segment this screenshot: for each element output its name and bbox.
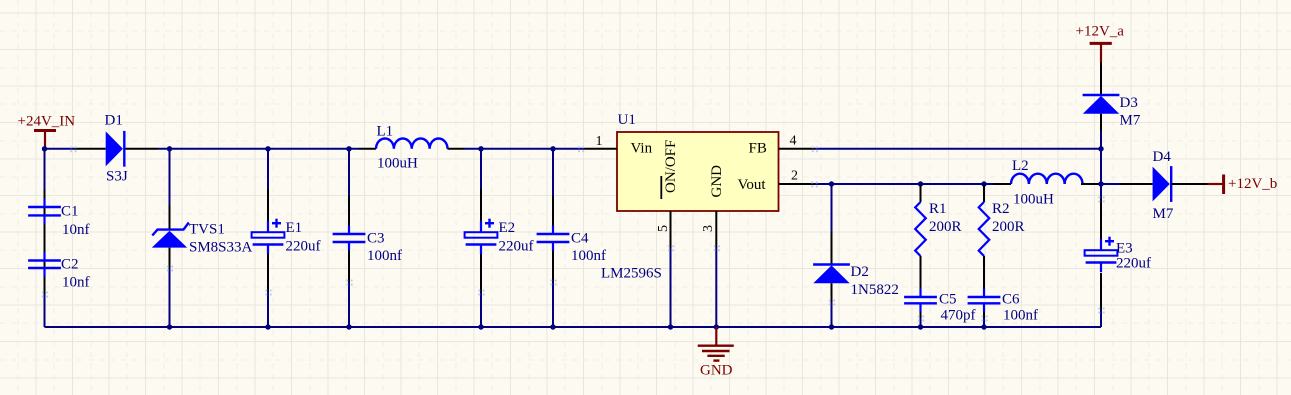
junction: [714, 324, 719, 329]
pin 2 Vout: [738, 169, 815, 193]
capacitor E1: [252, 219, 321, 255]
diode D2: [813, 264, 899, 298]
wire: [169, 149, 171, 327]
capacitor C1: [28, 199, 89, 239]
svg-text:D4: D4: [1153, 149, 1172, 165]
wire: [158, 148, 359, 150]
junction: [1098, 146, 1103, 151]
junction: [265, 324, 270, 329]
svg-text:LM2596S: LM2596S: [601, 266, 662, 282]
power port +24V_IN: [18, 114, 76, 149]
wire end marker: [981, 316, 987, 322]
svg-text:+24V_IN: +24V_IN: [18, 114, 76, 130]
ground: [698, 327, 734, 379]
svg-text:10nf: 10nf: [62, 222, 90, 238]
wire: [715, 248, 717, 327]
svg-text:200R: 200R: [929, 219, 962, 235]
inductor L1: [359, 124, 465, 172]
junction: [1098, 181, 1103, 186]
wire: [815, 183, 994, 185]
resistor R2: [979, 184, 1025, 294]
svg-text:TVS1: TVS1: [189, 221, 225, 237]
wire: [348, 149, 350, 327]
svg-text:+12V_b: +12V_b: [1228, 176, 1277, 192]
svg-text:E3: E3: [1116, 240, 1133, 256]
wire: [1100, 62, 1102, 95]
wire: [1100, 149, 1102, 184]
svg-text:D1: D1: [105, 113, 123, 129]
power port +12V_a: [1076, 23, 1125, 62]
svg-text:220uf: 220uf: [499, 239, 534, 255]
wire end marker: [70, 146, 76, 152]
svg-text:3: 3: [701, 225, 716, 232]
diode D4: [1101, 149, 1208, 222]
svg-text:Vout: Vout: [738, 177, 767, 193]
inductor L2: [993, 158, 1101, 208]
wire end marker: [1098, 308, 1104, 314]
wire: [480, 149, 482, 327]
svg-text:C1: C1: [61, 204, 79, 220]
svg-text:220uf: 220uf: [286, 239, 321, 255]
diode D1: [74, 113, 158, 185]
wire end marker: [1098, 197, 1104, 203]
resistor R1: [915, 184, 961, 294]
junction: [346, 324, 351, 329]
capacitor E3: [1085, 237, 1151, 273]
IC U1 LM2596S: [601, 112, 779, 282]
svg-text:FB: FB: [749, 141, 767, 157]
svg-text:100nf: 100nf: [367, 248, 402, 264]
wire end marker: [346, 280, 352, 286]
junction: [829, 181, 834, 186]
capacitor C5: [904, 289, 975, 328]
capacitor C3: [333, 226, 402, 265]
junction: [550, 146, 555, 151]
svg-text:C5: C5: [939, 292, 957, 308]
svg-text:GND: GND: [700, 363, 733, 379]
power port +12V_b: [1208, 175, 1278, 195]
wire: [670, 248, 672, 327]
TVS diode TVS1: [152, 221, 253, 255]
wire end marker: [812, 146, 818, 152]
pin 5 ON/OFF: [656, 140, 679, 248]
svg-text:2: 2: [791, 169, 798, 184]
wire end marker: [265, 290, 271, 296]
wire end marker: [167, 266, 173, 272]
junction: [346, 146, 351, 151]
diode D3: [1083, 95, 1141, 129]
svg-text:C6: C6: [1002, 292, 1020, 308]
svg-text:R2: R2: [992, 201, 1010, 217]
wire: [1100, 114, 1102, 149]
svg-text:L1: L1: [377, 124, 394, 140]
junction: [478, 146, 483, 151]
svg-text:S3J: S3J: [106, 169, 128, 185]
wire: [45, 148, 75, 150]
svg-text:1: 1: [596, 134, 603, 149]
svg-text:200R: 200R: [992, 219, 1025, 235]
wire: [831, 184, 833, 327]
junction: [265, 146, 270, 151]
svg-text:U1: U1: [618, 112, 636, 128]
wire end marker: [478, 290, 484, 296]
svg-text:D3: D3: [1120, 95, 1138, 111]
svg-text:100nf: 100nf: [1003, 308, 1038, 324]
capacitor C6: [968, 289, 1038, 328]
junction: [918, 324, 923, 329]
svg-text:100uH: 100uH: [1013, 192, 1054, 208]
svg-text:100uH: 100uH: [377, 156, 418, 172]
wire end marker: [829, 300, 835, 306]
svg-text:C2: C2: [61, 256, 79, 272]
pin 1 Vin: [583, 134, 653, 157]
wire: [44, 149, 46, 327]
svg-text:R1: R1: [929, 201, 947, 217]
wire: [45, 326, 1102, 328]
svg-text:470pf: 470pf: [941, 308, 976, 324]
junction: [478, 324, 483, 329]
svg-text:100nf: 100nf: [571, 248, 606, 264]
svg-text:L2: L2: [1012, 158, 1029, 174]
capacitor C2: [28, 252, 89, 291]
wire end marker: [42, 292, 48, 298]
junction: [167, 324, 172, 329]
junction: [42, 146, 47, 151]
wire end marker: [550, 280, 556, 286]
svg-text:M7: M7: [1120, 113, 1141, 129]
svg-text:E2: E2: [499, 220, 516, 236]
capacitor E2: [465, 219, 534, 255]
svg-text:1N5822: 1N5822: [851, 282, 899, 298]
wire end marker: [714, 245, 720, 251]
svg-text:Vin: Vin: [631, 141, 653, 157]
svg-text:ON/OFF: ON/OFF: [663, 140, 679, 193]
wire: [815, 148, 1102, 150]
wire: [267, 149, 269, 327]
svg-text:SM8S33A: SM8S33A: [189, 240, 253, 256]
capacitor C4: [537, 226, 606, 265]
pin 3 GND: [701, 165, 725, 248]
wire: [552, 149, 554, 327]
svg-text:4: 4: [790, 133, 797, 148]
junction: [829, 324, 834, 329]
wire: [1100, 184, 1102, 327]
pin 4 FB: [749, 133, 815, 156]
junction: [550, 324, 555, 329]
svg-text:C3: C3: [367, 231, 385, 247]
svg-text:220uf: 220uf: [1116, 255, 1151, 271]
svg-text:5: 5: [656, 225, 671, 232]
svg-text:M7: M7: [1153, 206, 1174, 222]
svg-text:D2: D2: [851, 264, 869, 280]
junction: [981, 324, 986, 329]
junction: [167, 146, 172, 151]
junction: [918, 181, 923, 186]
wire end marker: [578, 146, 584, 152]
wire end marker: [918, 316, 924, 322]
wire end marker: [668, 245, 674, 251]
svg-text:E1: E1: [286, 220, 303, 236]
junction: [668, 324, 673, 329]
svg-text:C4: C4: [571, 231, 589, 247]
junction: [981, 181, 986, 186]
svg-text:+12V_a: +12V_a: [1076, 23, 1125, 39]
svg-text:GND: GND: [709, 165, 725, 198]
svg-text:10nf: 10nf: [62, 275, 90, 291]
wire: [465, 148, 584, 150]
wire end marker: [811, 182, 817, 188]
